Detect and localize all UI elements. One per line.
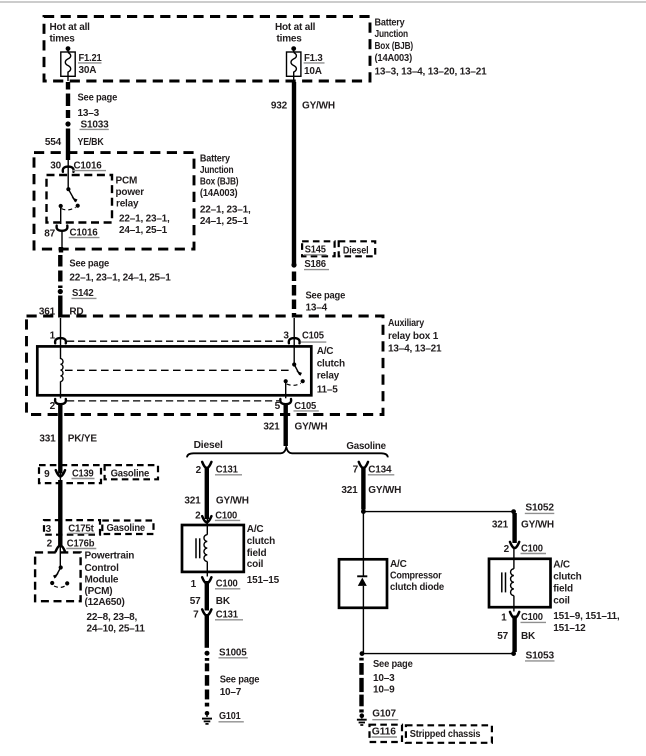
Powertrain Control Module dashed box xyxy=(35,552,81,601)
svg-text:Auxiliary: Auxiliary xyxy=(388,318,425,329)
label: Battery Junction Box (BJB) (14A003) pages xyxy=(375,17,488,77)
svg-text:See page: See page xyxy=(69,259,109,270)
svg-text:1: 1 xyxy=(191,579,197,590)
connector C131 pin 2 (diesel branch) xyxy=(196,462,242,476)
connector C176b pin 2 xyxy=(47,538,97,567)
auxiliary relay box 1 dashed enclosure xyxy=(27,316,384,415)
svg-text:Control: Control xyxy=(85,563,120,574)
A/C clutch field coil box (right) xyxy=(489,547,551,612)
ground G116 (dashed reference box) xyxy=(370,725,403,742)
svg-text:Diesel: Diesel xyxy=(343,245,369,256)
svg-text:Hot at all: Hot at all xyxy=(50,22,91,33)
svg-text:Diesel: Diesel xyxy=(194,440,223,451)
svg-text:C100: C100 xyxy=(215,510,237,521)
wire below diode xyxy=(362,608,364,654)
connector C134 pin 7 (gasoline branch) xyxy=(353,462,395,476)
svg-text:22–1, 23–1,: 22–1, 23–1, xyxy=(200,204,251,215)
wire: 57 BK xyxy=(190,581,231,611)
svg-text:C175t: C175t xyxy=(68,523,94,534)
wire: circuit 932 GY/WH from F1.3 xyxy=(271,82,335,265)
svg-text:331: 331 xyxy=(39,434,56,445)
svg-text:Powertrain: Powertrain xyxy=(85,550,135,561)
label: Auxiliary relay box 1 13-4, 13-21 xyxy=(388,318,442,355)
connector C139 pin 9 (dashed gasoline-only box) xyxy=(39,465,101,483)
svg-text:Module: Module xyxy=(85,574,119,585)
svg-text:30A: 30A xyxy=(79,65,97,76)
svg-text:See page: See page xyxy=(373,659,413,670)
svg-text:C1016: C1016 xyxy=(70,227,99,238)
PCM power relay inner dashed box xyxy=(47,175,113,223)
fuse F1.3 10A xyxy=(287,46,325,81)
node S1053 horizontal link xyxy=(360,650,555,661)
splice S142 xyxy=(58,288,97,299)
svg-text:10–7: 10–7 xyxy=(220,687,242,698)
svg-text:321: 321 xyxy=(341,485,358,496)
svg-text:13–3: 13–3 xyxy=(78,108,100,119)
svg-text:coil: coil xyxy=(247,559,264,570)
svg-text:9: 9 xyxy=(44,469,50,480)
battery junction box (top, BJB) dashed enclosure xyxy=(44,17,370,82)
page rule xyxy=(0,1,646,3)
svg-text:(12A650): (12A650) xyxy=(85,597,125,608)
svg-text:S1005: S1005 xyxy=(219,647,247,658)
label: Gasoline (dashed box) xyxy=(102,521,153,535)
wire into relay xyxy=(67,160,69,189)
label: A/C Compressor clutch diode xyxy=(390,559,445,593)
ground G107 xyxy=(357,709,398,725)
svg-text:GY/WH: GY/WH xyxy=(295,422,328,433)
label: See page 13-4 xyxy=(306,290,346,313)
relay coil xyxy=(61,346,64,398)
svg-text:A/C: A/C xyxy=(553,560,570,571)
svg-text:YE/BK: YE/BK xyxy=(78,137,105,148)
svg-text:GY/WH: GY/WH xyxy=(302,101,335,112)
brace split Diesel / Gasoline xyxy=(187,440,388,457)
svg-text:A/C: A/C xyxy=(390,559,407,570)
svg-text:Hot at all: Hot at all xyxy=(275,22,316,33)
wire continues xyxy=(58,480,62,547)
svg-text:321: 321 xyxy=(492,520,509,531)
label: Hot at all times (left) xyxy=(50,22,91,45)
svg-text:22–1, 23–1,: 22–1, 23–1, xyxy=(119,214,170,225)
svg-text:932: 932 xyxy=(271,101,288,112)
svg-text:S186: S186 xyxy=(304,259,326,270)
dashed connector link C105 bottom xyxy=(67,400,279,402)
A/C clutch field coil box (diesel) xyxy=(182,519,244,577)
svg-text:Junction: Junction xyxy=(200,165,234,176)
connector C105 pin 1 xyxy=(50,318,66,346)
svg-text:10–3: 10–3 xyxy=(373,673,395,684)
node to S1052 xyxy=(361,503,554,514)
svg-text:C105: C105 xyxy=(302,331,324,342)
PCM power relay switch xyxy=(59,187,80,210)
svg-text:554: 554 xyxy=(45,137,62,148)
svg-text:Junction: Junction xyxy=(375,29,409,40)
svg-text:22–1, 23–1, 24–1, 25–1: 22–1, 23–1, 24–1, 25–1 xyxy=(69,273,171,284)
svg-text:2: 2 xyxy=(47,539,53,550)
wire to S1005 xyxy=(205,614,209,648)
svg-text:G107: G107 xyxy=(372,709,396,720)
svg-text:(14A003): (14A003) xyxy=(200,188,238,199)
label: Gasoline (dashed box) xyxy=(105,465,158,479)
label: Hot at all times (right) xyxy=(275,22,316,45)
svg-text:C100: C100 xyxy=(521,612,543,623)
svg-text:24–1, 25–1: 24–1, 25–1 xyxy=(200,216,249,227)
A/C clutch relay inner box xyxy=(37,346,311,395)
svg-text:24–1, 25–1: 24–1, 25–1 xyxy=(119,225,168,236)
svg-text:C1016: C1016 xyxy=(74,160,103,171)
label: A/C clutch field coil 151-15 xyxy=(247,524,280,586)
svg-text:13–3, 13–4, 13–20, 13–21: 13–3, 13–4, 13–20, 13–21 xyxy=(375,67,488,78)
svg-text:Compressor: Compressor xyxy=(390,571,442,582)
PCM switch xyxy=(50,565,69,587)
wire: dashed off-page section to G101 xyxy=(205,658,209,707)
svg-text:Box (BJB): Box (BJB) xyxy=(375,41,414,52)
wire: 321 GY/WH gasoline xyxy=(341,467,401,510)
svg-text:C134: C134 xyxy=(368,464,392,475)
label: PCM power relay xyxy=(116,176,171,236)
connector C105 pin 5 xyxy=(275,399,319,412)
svg-text:power: power xyxy=(116,187,145,198)
connector C131 pin 7 xyxy=(193,609,243,620)
svg-text:151–12: 151–12 xyxy=(553,623,586,634)
svg-text:321: 321 xyxy=(184,495,201,506)
ground G101 xyxy=(202,711,244,724)
label: Stripped chassis (dashed box) xyxy=(406,725,492,743)
label: See page 22-1, 23-1, 24-1, 25-1 xyxy=(69,259,171,284)
svg-text:clutch: clutch xyxy=(247,536,275,547)
svg-text:See page: See page xyxy=(220,675,260,686)
svg-text:Gasoline: Gasoline xyxy=(107,523,146,534)
svg-text:57: 57 xyxy=(497,631,508,642)
connector C100 pin 1 (right) xyxy=(501,612,546,624)
svg-text:C100: C100 xyxy=(216,579,238,590)
svg-text:57: 57 xyxy=(190,596,201,607)
svg-text:2: 2 xyxy=(504,544,510,555)
svg-text:C176b: C176b xyxy=(67,538,95,549)
svg-text:22–8, 23–8,: 22–8, 23–8, xyxy=(87,612,138,623)
svg-text:Box (BJB): Box (BJB) xyxy=(200,177,239,188)
wire: dashed off-page section to G107 xyxy=(359,658,363,713)
svg-text:2: 2 xyxy=(195,510,201,521)
svg-text:(PCM): (PCM) xyxy=(85,586,113,597)
svg-text:times: times xyxy=(50,34,76,45)
connector C105 pin 2 xyxy=(50,399,66,412)
splice S145 (dashed reference box) xyxy=(302,241,335,256)
wire down to diode xyxy=(362,512,364,559)
svg-text:24–10, 25–11: 24–10, 25–11 xyxy=(87,624,146,635)
wire: 321 GY/WH diesel xyxy=(184,467,248,520)
svg-text:coil: coil xyxy=(553,596,570,607)
svg-text:See page: See page xyxy=(78,93,118,104)
svg-text:11–5: 11–5 xyxy=(317,385,339,396)
svg-text:relay: relay xyxy=(317,371,340,382)
splice S186 xyxy=(291,259,329,270)
dashed actuation line xyxy=(65,369,291,371)
svg-text:GY/WH: GY/WH xyxy=(216,495,249,506)
svg-text:C131: C131 xyxy=(216,464,239,475)
svg-text:151–15: 151–15 xyxy=(247,575,280,586)
label: See page 10-7 xyxy=(220,675,260,698)
label: A/C clutch field coil 151-9, 151-11, 151-12 xyxy=(553,560,620,635)
svg-text:(14A003): (14A003) xyxy=(375,53,413,64)
svg-text:87: 87 xyxy=(44,228,55,239)
svg-text:C131: C131 xyxy=(216,610,239,621)
wire: circuit 361 RD (dashed off-page section) xyxy=(58,255,62,288)
svg-text:BK: BK xyxy=(521,631,536,642)
A/C compressor clutch diode box xyxy=(339,559,387,608)
fuse F1.21 30A xyxy=(61,46,102,81)
svg-text:Battery: Battery xyxy=(375,17,406,28)
svg-text:clutch: clutch xyxy=(553,572,581,583)
connector C105 pin 3 xyxy=(283,318,326,365)
svg-text:S1052: S1052 xyxy=(525,503,554,514)
wire: 57 BK right branch xyxy=(497,616,536,653)
svg-text:clutch: clutch xyxy=(317,358,345,369)
wire: 321 GY/WH right branch from S1052 xyxy=(492,513,554,543)
svg-text:30: 30 xyxy=(50,160,61,171)
svg-text:S145: S145 xyxy=(305,245,327,256)
svg-text:10A: 10A xyxy=(304,66,322,77)
svg-text:Battery: Battery xyxy=(200,153,231,164)
svg-text:clutch diode: clutch diode xyxy=(390,582,445,593)
label: Battery Junction Box (BJB) (14A003) right of relay xyxy=(200,153,251,227)
svg-text:S1053: S1053 xyxy=(526,650,555,661)
svg-text:13–4, 13–21: 13–4, 13–21 xyxy=(388,344,442,355)
svg-text:relay: relay xyxy=(116,199,139,210)
svg-text:G101: G101 xyxy=(219,711,241,722)
svg-text:S1033: S1033 xyxy=(81,119,110,130)
svg-text:151–9, 151–11,: 151–9, 151–11, xyxy=(553,611,620,622)
svg-text:GY/WH: GY/WH xyxy=(521,520,554,531)
svg-text:BK: BK xyxy=(216,596,231,607)
wire: 932 dashed off-page section xyxy=(292,272,296,318)
label: See page 10-3 10-9 xyxy=(373,659,413,696)
svg-text:relay box 1: relay box 1 xyxy=(388,331,439,342)
svg-text:S142: S142 xyxy=(72,288,94,299)
svg-text:C100: C100 xyxy=(521,543,543,554)
connector C100 pin 2 (right) xyxy=(504,542,546,555)
svg-text:2: 2 xyxy=(196,465,202,476)
svg-text:field: field xyxy=(247,548,267,559)
label: Powertrain Control Module (PCM) (12A650) xyxy=(85,550,146,634)
svg-text:7: 7 xyxy=(353,464,359,475)
connector C1016 pin 87 xyxy=(44,206,99,253)
svg-text:PCM: PCM xyxy=(116,176,138,187)
wire: circuit 331 PK/YE from pin 2 xyxy=(39,405,97,474)
svg-text:A/C: A/C xyxy=(247,524,264,535)
wire: 554 YE/BK solid segment xyxy=(45,129,104,161)
svg-text:1: 1 xyxy=(501,612,507,623)
svg-text:Stripped chassis: Stripped chassis xyxy=(410,729,481,740)
connector C175t pin 3 (dashed box) xyxy=(44,520,100,535)
svg-text:13–4: 13–4 xyxy=(306,302,328,313)
label: A/C clutch relay 11-5 xyxy=(317,346,345,395)
svg-text:C139: C139 xyxy=(72,468,94,479)
svg-text:C105: C105 xyxy=(294,401,316,412)
relay switch xyxy=(284,362,305,398)
svg-text:PK/YE: PK/YE xyxy=(68,434,98,445)
battery junction box 2 (PCM power relay) dashed enclosure xyxy=(34,153,194,250)
wire: circuit 321 GY/WH from pin 5 xyxy=(263,405,327,450)
connector C1016 pin 30 xyxy=(50,160,106,172)
svg-text:Gasoline: Gasoline xyxy=(346,441,386,452)
dashed connector link C105 top xyxy=(67,340,287,342)
svg-text:321: 321 xyxy=(263,422,280,433)
connector C100 pin 2 (diesel) xyxy=(195,510,240,522)
splice S1005 xyxy=(205,647,248,658)
svg-text:G116: G116 xyxy=(372,727,397,738)
svg-text:Gasoline: Gasoline xyxy=(111,468,150,479)
connector C100 pin 1 (diesel) xyxy=(191,577,241,590)
label: See page 13-3 xyxy=(78,93,118,119)
svg-text:See page: See page xyxy=(306,290,346,301)
label: Diesel (dashed reference box) xyxy=(339,241,376,256)
svg-text:3: 3 xyxy=(46,524,52,535)
svg-text:10–9: 10–9 xyxy=(373,685,395,696)
splice S1033 xyxy=(65,119,109,130)
svg-text:GY/WH: GY/WH xyxy=(368,485,401,496)
wire: 361 RD solid segment xyxy=(39,296,84,318)
svg-text:field: field xyxy=(553,584,573,595)
svg-text:7: 7 xyxy=(193,610,199,621)
svg-text:times: times xyxy=(277,34,303,45)
wire: circuit 554 YE/BK from F1.21 (dashed off-page section) xyxy=(66,82,70,118)
svg-text:A/C: A/C xyxy=(317,346,334,357)
